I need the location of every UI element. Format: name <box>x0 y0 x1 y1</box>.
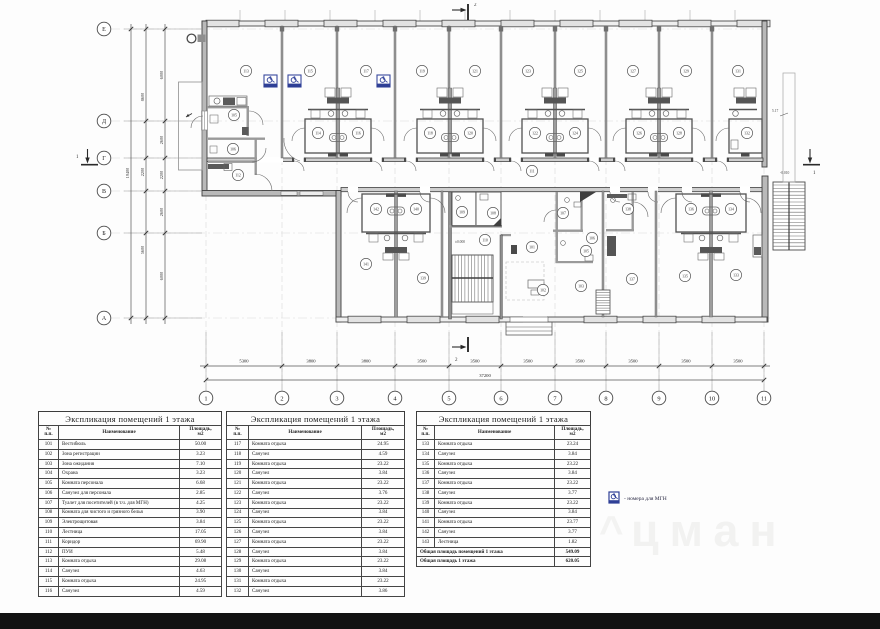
window top 3 <box>324 20 357 27</box>
svg-text:117: 117 <box>363 69 369 73</box>
window top 8 <box>619 20 652 27</box>
svg-text:2: 2 <box>455 358 458 363</box>
window top 6 <box>501 20 534 27</box>
window bottom 2 <box>407 316 440 323</box>
axis bubble Б <box>97 226 111 240</box>
walls rooms 107 106 105 <box>553 192 593 263</box>
grid bubble 8 <box>599 391 613 405</box>
svg-text:134: 134 <box>728 207 734 211</box>
door opening upper corridor x=615 <box>615 157 625 162</box>
canopy outline right <box>783 73 795 182</box>
room circle 110 <box>479 234 490 245</box>
outer wall lower-left vertical <box>336 191 341 323</box>
grid line 5 <box>448 24 450 391</box>
axis line В <box>111 190 768 192</box>
svg-text:6: 6 <box>499 395 502 402</box>
svg-text:129: 129 <box>683 69 689 73</box>
overall dimension 37200 <box>204 373 766 382</box>
room circle 106 <box>586 232 597 243</box>
svg-text:106: 106 <box>589 236 595 240</box>
dimension line left inner <box>163 24 167 324</box>
window top 2 <box>265 20 298 27</box>
svg-text:-0.010: -0.010 <box>780 171 789 175</box>
door opening upper corridor x=406 <box>406 157 416 162</box>
svg-text:127: 127 <box>630 69 636 73</box>
svg-text:121: 121 <box>472 69 478 73</box>
grid line 3 <box>336 24 338 391</box>
axis bubble Е <box>97 22 111 36</box>
svg-text:3800: 3800 <box>306 359 316 364</box>
svg-text:9: 9 <box>657 395 660 402</box>
stairs 110 <box>452 255 493 314</box>
svg-text:140: 140 <box>413 207 419 211</box>
svg-text:115: 115 <box>307 69 313 73</box>
svg-text:2600: 2600 <box>159 208 164 216</box>
partition wall lower x=656 <box>655 191 657 317</box>
svg-text:137: 137 <box>629 277 635 281</box>
axis line Г <box>111 157 768 159</box>
door opening lower corridor x=740 <box>740 187 750 193</box>
svg-text:3500: 3500 <box>733 359 743 364</box>
svg-text:111: 111 <box>529 169 535 173</box>
extension lines bottom <box>206 332 764 391</box>
svg-text:3: 3 <box>335 395 338 402</box>
entrance porch <box>506 317 552 335</box>
window bottom 5 <box>584 316 617 323</box>
svg-text:1: 1 <box>813 171 816 176</box>
svg-text:125: 125 <box>577 69 583 73</box>
svg-text:131: 131 <box>735 69 741 73</box>
dimension line left outer 19400 <box>125 24 133 324</box>
grid line 9 <box>658 24 660 391</box>
svg-text:114: 114 <box>315 131 321 135</box>
svg-text:123: 123 <box>525 69 531 73</box>
window bottom 3 <box>466 316 499 323</box>
room circle 132 <box>741 127 752 138</box>
grid bubble 9 <box>652 391 666 405</box>
table title <box>38 411 222 425</box>
entry fixtures <box>209 96 249 171</box>
room circle 113 <box>240 65 251 76</box>
room circle 109 <box>456 206 467 217</box>
door opening upper corridor x=717 <box>717 157 727 162</box>
room circle 112 <box>232 169 243 180</box>
axis bubble Д <box>97 114 111 128</box>
svg-text:133: 133 <box>733 273 739 277</box>
axis bubble В <box>97 184 111 198</box>
section marker 2 top <box>452 3 477 20</box>
svg-text:141: 141 <box>363 262 369 266</box>
room circle 127 <box>627 65 638 76</box>
rooms 109 108 <box>452 192 501 226</box>
entry door arcs <box>249 111 300 191</box>
svg-text:5.17: 5.17 <box>772 109 778 113</box>
svg-text:1: 1 <box>204 395 207 402</box>
partition wall upper x=337 <box>336 26 338 158</box>
room circle 111 <box>526 165 537 176</box>
wall middle rooms x=476 <box>475 192 477 226</box>
table title <box>226 411 405 425</box>
room circle 107 <box>557 207 568 218</box>
left door arc <box>191 116 203 128</box>
dark box room 104 <box>511 245 517 254</box>
room circle 123 <box>522 65 533 76</box>
outer wall lower-left horizontal <box>202 191 341 197</box>
section marker 2 bottom <box>452 337 468 363</box>
svg-text:8600: 8600 <box>140 93 145 101</box>
window top 5 <box>442 20 475 27</box>
wall stub y=234 <box>501 234 511 236</box>
section marker 1 right <box>803 149 820 176</box>
windows lower-left wall <box>281 191 297 195</box>
corridor wall upper <box>207 158 763 161</box>
room circle 102 <box>537 284 548 295</box>
svg-text:5600: 5600 <box>140 246 145 254</box>
grid line 2 <box>281 24 283 391</box>
grid bubble 6 <box>494 391 508 405</box>
shaft right wall <box>753 235 762 257</box>
bathroom pod 136/134 <box>661 191 761 317</box>
window bottom 7 <box>702 316 735 323</box>
svg-text:103: 103 <box>578 284 584 288</box>
corridor wall lower <box>341 188 762 192</box>
bathroom pod 142/140 <box>347 191 445 317</box>
ticks above top wall <box>240 10 735 21</box>
grid bubble 10 <box>705 391 719 405</box>
bottom black bar <box>0 613 880 629</box>
svg-text:132: 132 <box>744 131 750 135</box>
extension lines left <box>124 29 202 318</box>
grid bubble 4 <box>388 391 402 405</box>
room circle 139 <box>417 272 428 283</box>
svg-text:8: 8 <box>604 395 607 402</box>
wall lobby left x=450 <box>449 192 452 319</box>
svg-text:139: 139 <box>420 276 426 280</box>
svg-text:3500: 3500 <box>470 359 480 364</box>
svg-text:105: 105 <box>231 113 237 117</box>
partition wall upper x=449 <box>448 26 450 158</box>
svg-text:А: А <box>102 316 107 322</box>
svg-text:101: 101 <box>529 245 535 249</box>
bathroom pod 126/128 <box>613 88 705 157</box>
svg-text:Е: Е <box>102 27 106 33</box>
svg-text:2: 2 <box>280 395 283 402</box>
door opening lower corridor x=610 <box>610 187 620 193</box>
dimension line left mid <box>144 24 148 324</box>
corridor end opening <box>257 157 283 163</box>
room circle 108 <box>487 207 498 218</box>
svg-text:107: 107 <box>560 211 566 215</box>
partition wall upper x=555 <box>554 26 556 158</box>
window top 10 <box>737 20 770 27</box>
room circle 114 <box>312 127 323 138</box>
svg-text:119: 119 <box>419 69 425 73</box>
svg-text:122: 122 <box>532 131 538 135</box>
door opening upper corridor x=589 <box>589 157 599 162</box>
hose bib circle top-left <box>187 34 205 43</box>
svg-text:102: 102 <box>540 288 546 292</box>
floor plan drawing <box>0 0 880 410</box>
grid line 8 <box>605 24 607 391</box>
grid bubble 7 <box>548 391 562 405</box>
section marker 1 left <box>76 149 98 165</box>
wall stairs top y=226 <box>449 225 502 228</box>
room circle 140 <box>410 203 421 214</box>
walls bath 138 <box>606 192 634 231</box>
room circle 122 <box>529 127 540 138</box>
door opening upper corridor x=484 <box>484 157 494 162</box>
room circle 120 <box>464 127 475 138</box>
shaft on partition 606 <box>607 236 616 256</box>
grid line 10 <box>711 24 713 391</box>
svg-text:109: 109 <box>459 210 465 214</box>
explication table 1 <box>38 411 222 597</box>
legend MGN icon <box>608 491 698 510</box>
bathroom pod 114/116 <box>292 88 384 157</box>
svg-text:135: 135 <box>682 274 688 278</box>
outer wall left <box>202 21 207 191</box>
grid bubble 11 <box>757 391 771 405</box>
window top 4 <box>383 20 416 27</box>
axis line Д <box>111 120 768 122</box>
grid line 11 <box>763 24 765 391</box>
partition wall lower x=442 <box>441 191 443 317</box>
svg-text:6000: 6000 <box>159 71 164 79</box>
room circle 101 <box>526 241 537 252</box>
svg-text:3500: 3500 <box>575 359 585 364</box>
svg-text:142: 142 <box>373 207 379 211</box>
svg-text:1: 1 <box>76 155 79 160</box>
partition wall lower x=603 <box>602 191 604 317</box>
partition wall upper x=395 <box>394 26 396 158</box>
window bottom 1 <box>348 316 381 323</box>
svg-text:2200: 2200 <box>159 171 164 179</box>
svg-text:±0.000: ±0.000 <box>455 240 465 244</box>
door opening upper corridor x=511 <box>511 157 521 162</box>
partition wall upper x=282 <box>281 26 283 158</box>
svg-text:118: 118 <box>427 131 433 135</box>
svg-text:126: 126 <box>636 131 642 135</box>
door opening lower corridor x=348 <box>348 187 358 193</box>
axis bubble Г <box>97 151 111 165</box>
svg-text:10: 10 <box>709 395 715 402</box>
svg-text:11: 11 <box>761 395 767 402</box>
external stair right <box>773 182 805 250</box>
svg-text:110: 110 <box>482 238 488 242</box>
svg-text:3500: 3500 <box>681 359 691 364</box>
grid bubble 5 <box>442 391 456 405</box>
room circle 116 <box>352 127 363 138</box>
svg-text:128: 128 <box>676 131 682 135</box>
axis bubble А <box>97 311 111 325</box>
room circle 134 <box>725 203 736 214</box>
room circle 126 <box>633 127 644 138</box>
room circle 128 <box>673 127 684 138</box>
axis line Е <box>111 28 768 30</box>
entrance arrow left <box>186 114 192 118</box>
bathroom pod 122/124 <box>509 88 601 157</box>
room circle 115 <box>304 65 315 76</box>
room circle 137 <box>626 273 637 284</box>
svg-text:108: 108 <box>490 211 496 215</box>
door opening lower corridor x=648 <box>648 187 658 193</box>
svg-text:Г: Г <box>102 156 106 162</box>
outer wall bottom <box>336 317 767 322</box>
partition wall upper x=659 <box>658 26 660 158</box>
svg-text:37200: 37200 <box>479 373 491 378</box>
svg-text:Б: Б <box>102 231 106 237</box>
door opening upper corridor x=372 <box>372 157 382 162</box>
svg-text:113: 113 <box>243 69 249 73</box>
svg-text:105: 105 <box>583 249 589 253</box>
svg-text:3500: 3500 <box>417 359 427 364</box>
left wall window <box>202 111 208 130</box>
grid bubble 1 <box>199 391 213 405</box>
explication table 2 <box>226 411 405 597</box>
entry block walls <box>207 106 265 175</box>
svg-text:6000: 6000 <box>159 272 164 280</box>
room circle 124 <box>569 127 580 138</box>
window top 1 <box>206 20 239 27</box>
room circle 118 <box>424 127 435 138</box>
svg-text:116: 116 <box>355 131 361 135</box>
wall lobby x=501 <box>500 235 502 319</box>
svg-text:112: 112 <box>235 173 241 177</box>
bathroom pod 132 <box>716 88 762 157</box>
dimension line segments bottom <box>200 364 770 368</box>
grid line 7 <box>554 24 556 391</box>
room circle 119 <box>416 65 427 76</box>
axis line А <box>111 317 770 319</box>
room circle 105 <box>228 109 239 120</box>
svg-text:3500: 3500 <box>523 359 533 364</box>
MGN wheelchair icon <box>377 75 391 87</box>
door opening lower corridor x=420 <box>420 187 430 193</box>
bath 138 fixtures <box>611 194 648 217</box>
outer wall right lower <box>762 176 768 322</box>
bathroom pod 118/120 <box>404 88 496 157</box>
room circle 129 <box>680 65 691 76</box>
svg-text:В: В <box>102 189 106 195</box>
svg-text:2600: 2600 <box>159 136 164 144</box>
outer wall right <box>762 21 767 167</box>
door opening upper corridor x=294 <box>294 157 304 162</box>
svg-text:2: 2 <box>474 3 477 8</box>
stairs 143 <box>596 290 610 314</box>
window top 7 <box>560 20 593 27</box>
svg-text:5300: 5300 <box>239 359 249 364</box>
grid bubble 2 <box>275 391 289 405</box>
svg-text:19400: 19400 <box>125 168 130 178</box>
partition wall upper x=712 <box>711 26 713 158</box>
rooms 107 106 fixtures <box>544 192 596 261</box>
axis line Б <box>111 232 768 234</box>
window top 9 <box>678 20 711 27</box>
grid bubble 3 <box>330 391 344 405</box>
table title <box>416 411 591 425</box>
door opening lower corridor x=682 <box>682 187 692 193</box>
left entrance porch <box>179 82 203 170</box>
room circle 125 <box>574 65 585 76</box>
grid line 4 <box>394 24 396 391</box>
svg-text:- номера для МГН: - номера для МГН <box>624 496 667 502</box>
svg-text:106: 106 <box>230 147 236 151</box>
explication table 3 <box>416 411 591 567</box>
svg-text:5: 5 <box>447 395 450 402</box>
window bottom 6 <box>643 316 676 323</box>
MGN wheelchair icon <box>264 75 278 87</box>
svg-text:138: 138 <box>625 207 631 211</box>
partition wall upper x=501 <box>500 26 502 158</box>
outer wall top <box>202 21 767 26</box>
grid line 6 <box>500 24 502 391</box>
svg-text:Д: Д <box>102 119 106 125</box>
lobby reception desk <box>506 262 544 300</box>
svg-text:3800: 3800 <box>361 359 371 364</box>
svg-text:120: 120 <box>467 131 473 135</box>
door opening upper corridor x=693 <box>693 157 703 162</box>
partition wall upper x=606 <box>605 26 607 158</box>
MGN wheelchair icon <box>288 75 302 87</box>
room circle 135 <box>679 270 690 281</box>
room circle 131 <box>732 65 743 76</box>
grid line 1 <box>205 24 207 391</box>
svg-text:136: 136 <box>688 207 694 211</box>
room circle 133 <box>730 269 741 280</box>
room circle 106 <box>227 143 238 154</box>
label 5.17 <box>772 109 788 116</box>
svg-text:3500: 3500 <box>628 359 638 364</box>
watermark <box>631 505 788 557</box>
room circle 121 <box>469 65 480 76</box>
room circle 136 <box>685 203 696 214</box>
room circle 142 <box>370 203 381 214</box>
entrance door gap <box>523 316 547 322</box>
room circle 141 <box>360 258 371 269</box>
svg-text:124: 124 <box>572 131 578 135</box>
svg-text:2200: 2200 <box>140 168 145 176</box>
room circle 105 <box>580 245 591 256</box>
room circle 138 <box>622 203 633 214</box>
room circle 103 <box>575 280 586 291</box>
room circle 117 <box>360 65 371 76</box>
